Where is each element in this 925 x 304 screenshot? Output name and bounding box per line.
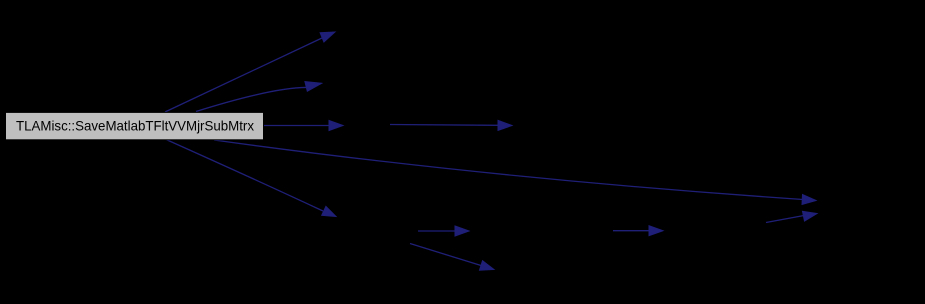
arrowhead B <box>305 82 322 92</box>
edge H: diagonal down-right <box>410 244 481 266</box>
edge I: lower horizontal short right <box>613 230 650 232</box>
arrowhead G <box>455 226 469 236</box>
arrowhead F <box>498 120 512 130</box>
arrowhead E <box>322 206 336 216</box>
edge F: mid horizontal <box>390 124 499 127</box>
edge A: box top to upper node <box>165 38 322 112</box>
edge B: box top to second node <box>196 87 309 111</box>
edge J: short rise to far right node <box>766 216 804 223</box>
arrowhead A <box>320 32 335 42</box>
edge C: box right, horizontal <box>263 125 330 127</box>
arrowhead J <box>803 211 818 221</box>
node box: TLAMisc::SaveMatlabTFltVVMjrSubMtrx <box>6 112 264 139</box>
arrowhead C <box>329 121 343 131</box>
edge G: lower horizontal short <box>418 230 456 232</box>
arrowhead D <box>802 195 816 205</box>
edge D: box bottom long curve to far right node <box>214 140 803 200</box>
arrowhead H <box>480 261 495 271</box>
edge E: box bottom to lower-middle node <box>165 139 323 211</box>
svg-text:TLAMisc::SaveMatlabTFltVVMjrSu: TLAMisc::SaveMatlabTFltVVMjrSubMtrx <box>16 117 254 133</box>
arrowhead I <box>649 226 663 236</box>
